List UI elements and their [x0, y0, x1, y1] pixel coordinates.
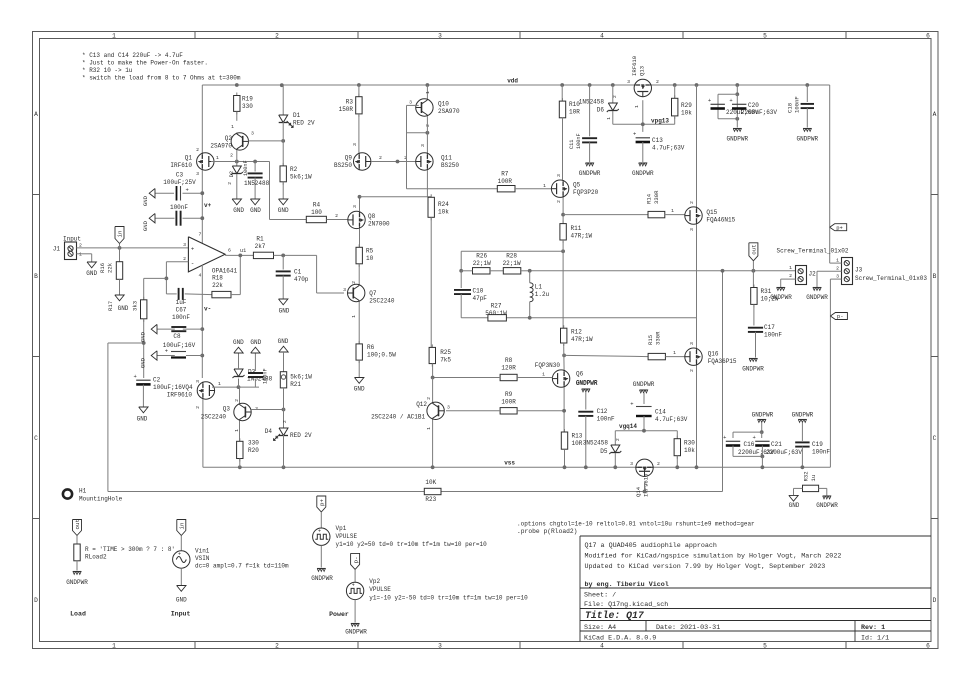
svg-text:2: 2	[689, 369, 695, 372]
svg-text:BS250: BS250	[334, 162, 352, 169]
wire Q9-Q11 gate net	[371, 161, 416, 163]
zener D3	[238, 379, 240, 388]
svg-text:Q14: Q14	[635, 486, 642, 497]
svg-text:1: 1	[789, 265, 792, 271]
svg-text:1: 1	[231, 124, 234, 130]
net flag out (load)	[73, 520, 82, 536]
wire v+ line	[201, 85, 203, 153]
transistor Q7 2SC2240	[358, 264, 360, 285]
svg-text:vgq14: vgq14	[619, 423, 637, 430]
gndpwr below C20	[736, 119, 738, 128]
svg-text:C18: C18	[787, 103, 794, 113]
svg-text:Q17 a QUAD405 audiophile appro: Q17 a QUAD405 audiophile approach	[585, 542, 717, 550]
svg-text:1N52458: 1N52458	[579, 99, 605, 106]
ground above C9	[251, 347, 260, 353]
svg-text:Sheet: /: Sheet: /	[584, 592, 616, 600]
zener D2	[236, 162, 238, 167]
svg-text:2: 2	[230, 153, 233, 159]
svg-text:Rev: 1: Rev: 1	[861, 624, 885, 632]
svg-text:R4: R4	[313, 202, 321, 209]
svg-text:-: -	[191, 260, 195, 267]
svg-text:R29: R29	[681, 102, 692, 109]
svg-text:vss: vss	[504, 460, 515, 467]
svg-text:100uF;16VQ4: 100uF;16VQ4	[153, 384, 193, 391]
svg-text:3: 3	[438, 33, 442, 40]
ground below R32	[789, 495, 798, 501]
svg-text:3: 3	[420, 144, 426, 147]
svg-text:GND: GND	[278, 207, 289, 214]
svg-text:+: +	[318, 529, 321, 535]
svg-text:1u: 1u	[810, 475, 817, 482]
svg-text:Q6: Q6	[576, 371, 584, 378]
svg-text:2: 2	[275, 33, 279, 40]
svg-text:D: D	[34, 597, 38, 604]
svg-text:7: 7	[199, 232, 202, 238]
mosfet Q11 BS250	[426, 116, 428, 153]
capacitor C14 4.7uF;63V	[636, 406, 652, 408]
svg-text:2: 2	[275, 643, 279, 650]
svg-text:100nF: 100nF	[764, 332, 782, 339]
svg-text:1: 1	[673, 350, 676, 356]
capacitor C4 100nF	[254, 162, 256, 172]
svg-text:100nF: 100nF	[812, 449, 830, 456]
svg-text:+: +	[178, 551, 181, 557]
svg-text:3: 3	[196, 171, 199, 177]
wire opamp output	[225, 254, 253, 256]
wire Q6 source to R13	[563, 387, 565, 432]
svg-text:C16: C16	[744, 441, 755, 448]
svg-text:GND: GND	[86, 270, 97, 277]
svg-text:C2: C2	[153, 377, 161, 384]
svg-text:1: 1	[426, 427, 432, 430]
zener D5	[614, 431, 616, 445]
resistor R2	[282, 163, 284, 166]
svg-text:R14: R14	[646, 193, 653, 204]
svg-text:C14: C14	[655, 409, 666, 416]
capacitor C13 4.7uF;63V	[636, 137, 650, 139]
connector J3 screw terminal 01x03	[842, 258, 853, 285]
svg-text:3: 3	[447, 405, 450, 411]
svg-text:u1: u1	[240, 248, 246, 254]
ground below C2	[142, 385, 144, 408]
svg-text:vdd: vdd	[507, 78, 518, 85]
transistor Q3 2SC2240	[234, 403, 251, 420]
svg-text:C21: C21	[771, 441, 782, 448]
svg-text:GNDPWR: GNDPWR	[579, 170, 601, 177]
transistor Q12 2SC2240/AC181	[432, 378, 434, 403]
svg-text:Q15: Q15	[706, 209, 717, 216]
svg-text:100: 100	[311, 209, 322, 216]
svg-text:Input: Input	[63, 236, 81, 243]
wire right supply drop to J3	[829, 85, 831, 263]
svg-text:+: +	[708, 97, 711, 104]
svg-text:2: 2	[379, 155, 382, 161]
svg-text:D1: D1	[293, 112, 301, 119]
svg-text:Q10: Q10	[438, 101, 449, 108]
svg-text:R7: R7	[501, 171, 509, 178]
ground below R16	[119, 279, 121, 295]
svg-text:Date: 2021-03-31: Date: 2021-03-31	[656, 624, 720, 632]
svg-text:2SC2240: 2SC2240	[201, 414, 227, 421]
svg-text:47R;1W: 47R;1W	[571, 233, 593, 240]
svg-text:47pF: 47pF	[473, 295, 488, 302]
svg-text:H1: H1	[79, 488, 87, 495]
svg-text:10k: 10k	[684, 447, 695, 454]
svg-text:C20: C20	[748, 102, 759, 109]
svg-text:1: 1	[542, 372, 545, 378]
svg-text:R20: R20	[248, 447, 259, 454]
capacitor C6 1uF	[166, 293, 176, 295]
svg-text:IRF610: IRF610	[631, 55, 638, 76]
svg-text:2: 2	[227, 182, 233, 185]
wire Q10 diode loop	[407, 104, 419, 106]
svg-text:R26: R26	[476, 253, 487, 260]
wire R24 down to Q12 node	[430, 217, 432, 347]
svg-text:+: +	[633, 131, 636, 138]
resistor RLoad2	[76, 541, 78, 544]
wire Q15 source to output	[696, 224, 698, 270]
wire J1 pin1 to GND	[77, 253, 92, 255]
svg-text:Screw_Terminal_01x03: Screw_Terminal_01x03	[855, 275, 927, 282]
mosfet Q13 IRF610 on rail	[634, 79, 651, 96]
svg-text:R13: R13	[572, 433, 583, 440]
svg-text:by eng. Tiberiu Vicol: by eng. Tiberiu Vicol	[585, 581, 669, 589]
wire Q14 gate to feedback	[644, 483, 646, 492]
svg-text:p+: p+	[836, 224, 843, 231]
voltage source Vp2 VPULSE	[346, 582, 363, 599]
svg-text:IRF610: IRF610	[170, 162, 192, 169]
svg-text:C67: C67	[176, 307, 187, 314]
mosfet Q5 FQP3P20	[551, 180, 568, 197]
wire R14 gate drive	[563, 214, 648, 216]
resistor R25 7k5	[431, 344, 433, 347]
svg-text:Q9: Q9	[345, 155, 353, 162]
mosfet Q9 BS250	[358, 114, 360, 153]
svg-text:+: +	[186, 187, 189, 194]
svg-text:FQP3N30: FQP3N30	[535, 362, 561, 369]
resistor R10 10R	[560, 83, 564, 87]
svg-text:p-: p-	[837, 313, 844, 320]
svg-text:100nF: 100nF	[263, 368, 269, 384]
svg-text:Q2: Q2	[225, 135, 233, 142]
svg-text:C11: C11	[569, 140, 575, 149]
svg-text:FQP3P20: FQP3P20	[573, 189, 599, 196]
power flag p+	[830, 224, 847, 231]
wire Q1 gate net	[211, 161, 270, 163]
svg-text:1: 1	[543, 183, 546, 189]
resistor R3 150R	[357, 83, 361, 87]
svg-text:2: 2	[836, 266, 839, 272]
svg-text:6: 6	[926, 643, 930, 650]
mosfet Q8 2N7000	[348, 211, 365, 228]
wire R15 to Q16	[564, 355, 648, 356]
svg-text:Vin1: Vin1	[195, 548, 210, 555]
wire vpg13 net	[642, 100, 644, 132]
svg-text:GNDPWR: GNDPWR	[633, 381, 655, 388]
wire R1 to Q7 base	[316, 255, 318, 293]
svg-text:2: 2	[425, 124, 431, 127]
svg-text:+: +	[134, 373, 137, 380]
resistor R24 10k	[426, 170, 428, 197]
svg-text:3N52458: 3N52458	[583, 440, 609, 447]
gndpwr below C18	[803, 128, 811, 130]
inductor L1 1.2u	[530, 283, 533, 302]
svg-text:2: 2	[426, 397, 432, 400]
svg-text:10k: 10k	[681, 110, 692, 117]
svg-text:FQA46N15: FQA46N15	[706, 217, 735, 224]
svg-text:R19: R19	[242, 96, 253, 103]
svg-text:22k: 22k	[212, 282, 223, 289]
svg-text:GND: GND	[176, 597, 187, 604]
svg-text:D6: D6	[597, 107, 605, 114]
gndpwr below C17	[749, 358, 757, 360]
LED D4	[279, 428, 288, 436]
svg-text:Load: Load	[70, 611, 86, 618]
svg-text:4.7uF;63V: 4.7uF;63V	[655, 416, 688, 423]
svg-text:3: 3	[352, 205, 358, 208]
svg-text:Updated to KiCad version 7.99: Updated to KiCad version 7.99 by Holger …	[585, 563, 826, 571]
svg-text:Q16: Q16	[708, 351, 719, 358]
svg-text:MountingHole: MountingHole	[79, 496, 123, 503]
wire v- line below opamp	[201, 265, 203, 378]
svg-text:3: 3	[343, 287, 346, 293]
svg-text:FQA36P15: FQA36P15	[708, 358, 737, 365]
svg-text:B: B	[933, 273, 937, 280]
svg-text:J2: J2	[809, 271, 817, 278]
wire R26 bypass top	[461, 250, 563, 252]
svg-text:Vp1: Vp1	[336, 525, 347, 532]
wire output node drop	[722, 271, 724, 492]
resistor R31 10;2W	[752, 271, 754, 288]
svg-text:y1=-10 y2=-50 td=0 tr=10m tf=1: y1=-10 y2=-50 td=0 tr=10m tf=1m tw=10 pe…	[369, 595, 528, 602]
svg-text:3: 3	[195, 380, 201, 383]
svg-text:R3: R3	[346, 99, 354, 106]
svg-text:RED 2V: RED 2V	[293, 120, 315, 127]
svg-text:4: 4	[199, 273, 202, 279]
capacitor C1 470p	[282, 255, 284, 269]
svg-text:GNDPWR: GNDPWR	[752, 412, 774, 419]
svg-text:2200uF;63V: 2200uF;63V	[741, 109, 777, 116]
net flag in	[115, 227, 124, 244]
svg-text:2: 2	[282, 420, 288, 423]
svg-text:B: B	[34, 273, 38, 280]
svg-text:GNDPWR: GNDPWR	[726, 136, 748, 143]
svg-text:Id: 1/1: Id: 1/1	[861, 634, 889, 642]
svg-text:R6: R6	[367, 344, 375, 351]
svg-text:C12: C12	[597, 408, 608, 415]
svg-text:C10: C10	[473, 288, 484, 295]
svg-text:D2: D2	[229, 171, 235, 177]
svg-text:1: 1	[218, 381, 221, 387]
svg-text:3: 3	[627, 79, 630, 85]
transistor Q10 2SA970	[426, 83, 430, 87]
mosfet Q6 FQP3N30	[552, 370, 569, 387]
svg-text:R32: R32	[803, 471, 810, 481]
voltage source Vin1 VSIN	[173, 551, 190, 568]
capacitor C11 100nF	[588, 83, 592, 87]
svg-text:C17: C17	[764, 324, 775, 331]
mosfet Q16 FQA36P15	[685, 348, 702, 365]
svg-text:GND: GND	[140, 357, 147, 368]
svg-text:GND: GND	[250, 207, 261, 214]
svg-text:C19: C19	[812, 441, 823, 448]
svg-text:D4: D4	[265, 428, 273, 435]
transistor Q2 2SA970	[236, 111, 238, 120]
capacitor C7 100nF on v-	[157, 328, 175, 330]
wire R1 out	[274, 254, 317, 256]
svg-text:5k6;1W: 5k6;1W	[290, 374, 312, 381]
svg-text:+: +	[352, 583, 355, 589]
resistor R21 5k6;1W	[283, 352, 285, 372]
wire R11 to R12	[562, 240, 564, 328]
svg-text:Screw_Terminal_01x02: Screw_Terminal_01x02	[777, 248, 849, 255]
svg-text:2SA970: 2SA970	[438, 108, 460, 115]
svg-text:R27: R27	[491, 303, 502, 310]
capacitor C9 100nF	[254, 353, 256, 371]
svg-text:100nF: 100nF	[172, 314, 190, 321]
wire feedback R23 line	[108, 491, 424, 493]
svg-text:IRF9610: IRF9610	[643, 473, 650, 497]
svg-text:2: 2	[195, 406, 201, 409]
svg-text:Q5: Q5	[573, 182, 581, 189]
svg-text:2: 2	[351, 281, 357, 284]
svg-text:GND: GND	[137, 416, 148, 423]
ground above R21	[279, 346, 288, 352]
svg-text:1: 1	[606, 117, 612, 120]
capacitor C2 100uF;16V	[136, 379, 150, 381]
resistor R6 100;0.5W	[358, 341, 360, 344]
svg-text:R18: R18	[212, 275, 223, 282]
svg-text:C8: C8	[173, 333, 181, 340]
svg-text:GND: GND	[250, 339, 261, 346]
svg-text:4.7uF;63V: 4.7uF;63V	[652, 145, 685, 152]
svg-text:GND: GND	[142, 220, 149, 231]
svg-text:100nF: 100nF	[243, 160, 249, 176]
svg-text:10K: 10K	[425, 479, 436, 486]
svg-text:4: 4	[600, 643, 604, 650]
svg-text:* Just to make the Power-On fa: * Just to make the Power-On faster.	[82, 60, 208, 67]
svg-text:3: 3	[556, 174, 562, 177]
svg-text:Input: Input	[171, 611, 191, 618]
net flag in (source)	[177, 520, 186, 536]
svg-text:in: in	[179, 523, 186, 530]
svg-text:2SC2240 / AC1B1: 2SC2240 / AC1B1	[371, 414, 425, 421]
wire opamp inverting input	[166, 261, 188, 263]
svg-text:A: A	[933, 111, 937, 118]
svg-text:1: 1	[216, 155, 219, 161]
gndpwr below Vp1	[320, 545, 322, 567]
svg-text:100uF;25V: 100uF;25V	[163, 179, 196, 186]
svg-text:2: 2	[689, 201, 695, 204]
svg-text:Q1: Q1	[185, 155, 193, 162]
resistor R18 22k feedback	[212, 291, 231, 297]
svg-text:2: 2	[615, 438, 621, 441]
svg-text:L1: L1	[535, 284, 543, 291]
gndpwr below Vp2	[354, 600, 356, 623]
svg-text:3: 3	[352, 143, 358, 146]
svg-text:GNDPWR: GNDPWR	[806, 294, 828, 301]
svg-text:v+: v+	[204, 202, 212, 209]
wire damping bottom	[461, 317, 488, 319]
svg-text:* C13 and C14 220uF -> 4.7uF: * C13 and C14 220uF -> 4.7uF	[82, 52, 183, 59]
svg-text:3: 3	[689, 228, 695, 231]
svg-text:OPA1641: OPA1641	[212, 268, 238, 275]
svg-text:GND: GND	[279, 308, 290, 315]
svg-text:Q12: Q12	[416, 401, 427, 408]
resistor R16	[119, 248, 121, 262]
svg-text:in: in	[117, 231, 124, 238]
wire vss rail	[203, 466, 831, 468]
svg-text:6: 6	[228, 248, 231, 254]
svg-text:D: D	[933, 597, 937, 604]
svg-text:C: C	[34, 435, 38, 442]
svg-text:2: 2	[789, 273, 792, 279]
svg-text:BS250: BS250	[441, 162, 459, 169]
svg-text:2: 2	[657, 461, 660, 467]
svg-text:100nF: 100nF	[794, 96, 801, 113]
net flag out (output)	[749, 243, 758, 261]
svg-text:330: 330	[248, 440, 259, 447]
svg-text:GND: GND	[142, 195, 149, 206]
svg-text:+: +	[729, 97, 732, 104]
op-amp U1 OPA1641	[188, 237, 225, 272]
mosfet Q15 FQA46N15	[695, 83, 699, 87]
wire J1 to opamp +	[77, 247, 189, 249]
svg-text:Size: A4: Size: A4	[584, 624, 616, 632]
capacitor C16 2200uF;63V	[733, 431, 762, 433]
svg-text:C: C	[933, 435, 937, 442]
svg-text:3: 3	[251, 131, 254, 137]
svg-text:1: 1	[79, 252, 82, 258]
svg-text:2k7: 2k7	[255, 243, 266, 250]
svg-text:R15: R15	[647, 335, 654, 345]
wire feedback to R17	[144, 277, 167, 279]
svg-text:1: 1	[634, 105, 640, 108]
svg-text:D5: D5	[600, 448, 608, 455]
svg-text:R2: R2	[290, 166, 298, 173]
svg-text:KiCad E.D.A. 8.0.9: KiCad E.D.A. 8.0.9	[584, 634, 656, 642]
svg-text:120R: 120R	[501, 365, 516, 372]
resistor R20 330	[239, 438, 241, 441]
ground below D2	[236, 174, 238, 199]
voltage source Vp1 VPULSE	[313, 528, 330, 545]
svg-text:1: 1	[425, 91, 431, 94]
capacitor C19 100nF	[795, 441, 809, 443]
svg-text:IRF9610: IRF9610	[167, 392, 193, 399]
svg-text:7k5: 7k5	[440, 357, 451, 364]
svg-text:* R32 10 -> 1u: * R32 10 -> 1u	[82, 67, 133, 74]
svg-text:2: 2	[335, 213, 338, 219]
gndpwr below C11	[585, 162, 593, 164]
wire J2 pin2 to gndpwr	[781, 278, 796, 280]
svg-text:v-: v-	[204, 306, 211, 313]
wire Q8 source to R5	[359, 229, 361, 248]
svg-text:1.2u: 1.2u	[535, 291, 550, 298]
capacitor C21 2200uF;63V	[761, 432, 763, 438]
svg-text:y1=10 y2=50 td=0 tr=10m tf=1m: y1=10 y2=50 td=0 tr=10m tf=1m tw=10 per=…	[336, 541, 488, 548]
wire vgq14 net	[615, 430, 677, 432]
svg-text:10: 10	[366, 255, 374, 262]
svg-text:R17: R17	[107, 301, 114, 311]
ground below Vin1	[180, 568, 182, 585]
capacitor C20 2200uF;63V pair	[735, 83, 739, 87]
svg-text:R12: R12	[571, 329, 582, 336]
resistor R13 10R	[564, 429, 566, 432]
svg-text:Q13: Q13	[639, 66, 646, 76]
svg-text:R30: R30	[684, 440, 695, 447]
svg-text:J3: J3	[855, 267, 863, 274]
wire Q8 to R24	[360, 196, 432, 198]
